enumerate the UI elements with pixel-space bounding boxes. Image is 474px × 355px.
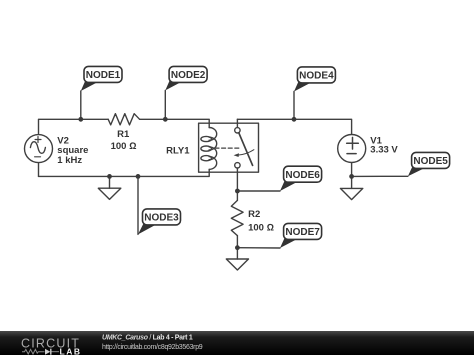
node dot NODE4 anchor xyxy=(292,117,297,122)
node flags xyxy=(81,66,450,248)
logo diode xyxy=(45,349,59,355)
svg-text:LAB: LAB xyxy=(60,347,82,355)
ground bottom (under R2) xyxy=(226,248,248,270)
relay coil xyxy=(201,128,217,170)
wire top-left rail xyxy=(39,119,109,134)
node dot NODE7 junction xyxy=(235,245,240,250)
logo resistor squiggle xyxy=(22,349,45,354)
resistor R1 xyxy=(108,114,139,125)
flag NODE4 xyxy=(294,67,335,92)
relay arrow xyxy=(234,150,254,157)
component labels xyxy=(57,129,398,234)
wire NODE7 xyxy=(237,247,280,249)
wire relay bottom contact to R2 xyxy=(236,168,238,200)
wire top-right rail xyxy=(237,119,351,134)
wire R2 bottom xyxy=(236,236,238,248)
flag NODE6 xyxy=(280,166,322,191)
svg-text:RLY1: RLY1 xyxy=(166,146,190,157)
flag NODE2 xyxy=(165,66,207,90)
svg-text:NODE6: NODE6 xyxy=(285,170,320,181)
svg-text:NODE4: NODE4 xyxy=(299,71,334,82)
svg-text:UMKC_Caruso / Lab 4 - Part 1: UMKC_Caruso / Lab 4 - Part 1 xyxy=(102,334,193,341)
resistor R2 xyxy=(231,200,243,235)
wire bottom-left rail xyxy=(39,169,210,176)
source V1 xyxy=(338,135,366,163)
wire V2 bottom stub xyxy=(38,163,40,177)
svg-text:NODE7: NODE7 xyxy=(285,227,320,238)
svg-text:NODE2: NODE2 xyxy=(171,70,206,81)
flag NODE3 xyxy=(138,209,181,235)
node dot NODE1 anchor xyxy=(78,117,83,122)
wire NODE3 stub xyxy=(137,176,139,234)
svg-text:R1: R1 xyxy=(117,129,130,140)
node dot NODE2 anchor xyxy=(163,117,168,122)
wire NODE1 stub xyxy=(80,91,82,119)
relay RLY1 box xyxy=(199,123,259,172)
flag NODE5 xyxy=(408,152,450,176)
svg-text:1 kHz: 1 kHz xyxy=(57,155,82,166)
node dot ground-left junction xyxy=(107,174,112,179)
wire NODE6 xyxy=(237,190,280,192)
ground left xyxy=(98,176,121,199)
node dot NODE3 anchor xyxy=(136,174,141,179)
flag NODE1 xyxy=(81,66,122,91)
ground right (under V1) xyxy=(340,176,362,199)
svg-text:100 Ω: 100 Ω xyxy=(248,222,274,233)
flag NODE7 xyxy=(280,223,322,248)
junction dots xyxy=(78,117,354,250)
svg-text:3.33 V: 3.33 V xyxy=(370,145,398,156)
node dot V1 bottom junction xyxy=(349,174,354,179)
wire R1 to relay coil xyxy=(140,119,210,127)
footer bar xyxy=(0,331,474,355)
source V2 xyxy=(25,135,53,163)
svg-text:NODE5: NODE5 xyxy=(413,156,448,167)
wire relay top contact xyxy=(236,119,238,127)
svg-text:R2: R2 xyxy=(248,209,260,220)
wire NODE5 xyxy=(352,175,408,177)
svg-text:http://circuitlab.com/c8q92b35: http://circuitlab.com/c8q92b3563rp9 xyxy=(102,344,203,351)
relay dashed actuation line xyxy=(215,147,241,149)
node dot NODE6 junction xyxy=(235,189,240,194)
relay switch contacts xyxy=(235,128,240,133)
wire NODE2 stub xyxy=(164,90,166,119)
relay switch arm xyxy=(239,133,253,166)
wire NODE4 stub xyxy=(293,92,295,120)
svg-text:NODE1: NODE1 xyxy=(86,70,121,81)
svg-text:NODE3: NODE3 xyxy=(144,213,179,224)
wire V1 bottom stub xyxy=(351,163,353,177)
svg-text:100 Ω: 100 Ω xyxy=(111,141,137,152)
